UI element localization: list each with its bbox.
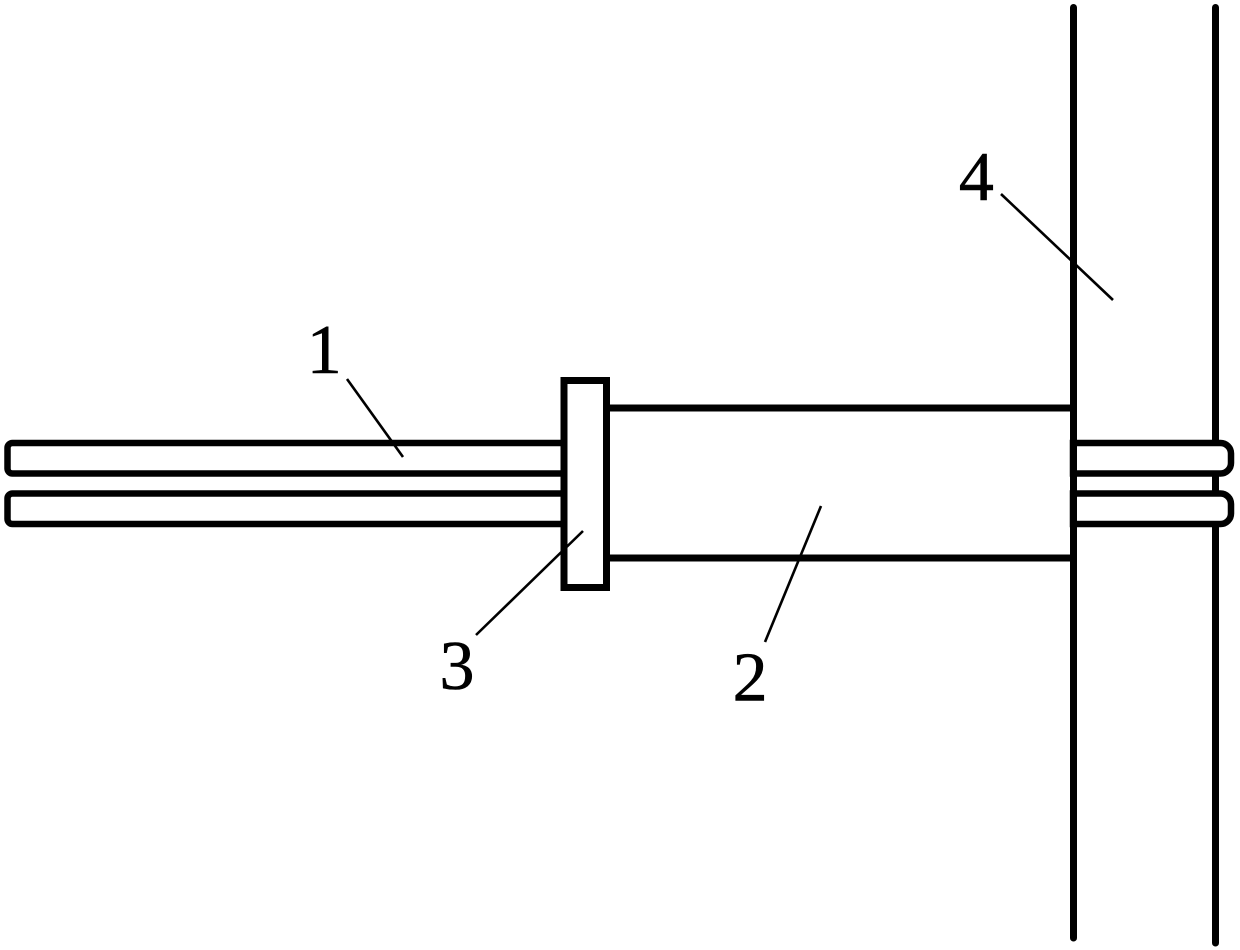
svg-text:4: 4: [959, 139, 994, 216]
svg-text:1: 1: [307, 312, 342, 389]
svg-text:3: 3: [440, 628, 475, 705]
svg-text:2: 2: [733, 640, 768, 717]
